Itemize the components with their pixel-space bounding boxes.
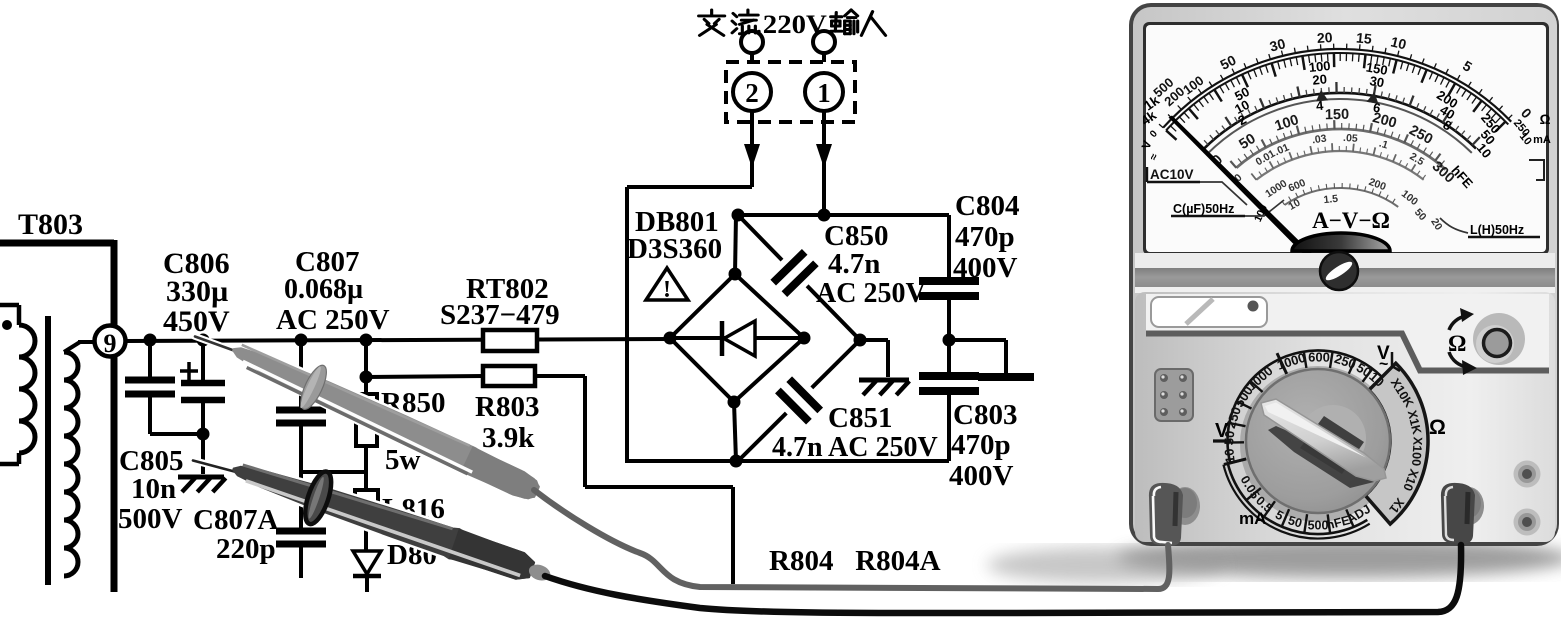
svg-text:1: 1 [817, 78, 831, 108]
svg-text:220V: 220V [763, 9, 827, 39]
svg-text:0.068µ: 0.068µ [284, 274, 363, 305]
svg-text:450V: 450V [163, 305, 230, 338]
svg-text:220p: 220p [216, 533, 276, 565]
svg-text:2: 2 [745, 78, 759, 108]
svg-text:Ω: Ω [1540, 112, 1551, 127]
svg-text:.03: .03 [1311, 132, 1327, 146]
svg-text:10: 10 [1221, 448, 1238, 464]
svg-text:mA: mA [1533, 134, 1551, 146]
svg-text:10n: 10n [131, 473, 176, 505]
svg-text:20: 20 [1316, 29, 1333, 46]
svg-text:C807A: C807A [193, 504, 278, 536]
svg-text:3.9k: 3.9k [482, 422, 535, 454]
svg-text:4.7n: 4.7n [828, 248, 880, 280]
svg-text:C(µF)50Hz: C(µF)50Hz [1173, 202, 1234, 216]
svg-text:470p: 470p [955, 221, 1015, 253]
svg-text:330µ: 330µ [166, 275, 228, 308]
svg-text:AC 250V: AC 250V [276, 304, 390, 336]
svg-text:Ω: Ω [1429, 416, 1446, 439]
svg-text:400V: 400V [949, 460, 1014, 492]
svg-text:C804: C804 [955, 190, 1019, 222]
svg-text:mA: mA [1239, 509, 1266, 528]
svg-text:R803: R803 [475, 391, 539, 423]
svg-text:9: 9 [104, 329, 117, 358]
svg-text:S237−479: S237−479 [440, 299, 560, 331]
svg-text:30: 30 [1368, 73, 1385, 90]
svg-text:470p: 470p [951, 429, 1011, 461]
svg-text:A−V−Ω: A−V−Ω [1312, 208, 1390, 233]
svg-text:AC10V: AC10V [1150, 167, 1194, 182]
svg-text:C803: C803 [953, 399, 1017, 431]
svg-text:1.5: 1.5 [1323, 193, 1339, 206]
svg-text:!: ! [663, 277, 671, 303]
svg-text:600: 600 [1308, 349, 1330, 364]
svg-text:15: 15 [1355, 29, 1372, 46]
svg-text:~: ~ [1379, 356, 1388, 373]
svg-text:400V: 400V [953, 252, 1018, 284]
svg-text:4.7n AC 250V: 4.7n AC 250V [772, 432, 938, 463]
svg-text:C851: C851 [828, 402, 892, 434]
svg-text:20: 20 [1312, 71, 1328, 87]
svg-text:150: 150 [1325, 107, 1349, 123]
svg-text:V: V [1215, 420, 1229, 442]
svg-text:R804 R804A: R804 R804A [769, 545, 941, 577]
svg-text:L(H)50Hz: L(H)50Hz [1470, 223, 1524, 237]
svg-text:X100: X100 [1409, 436, 1425, 466]
svg-text:.05: .05 [1343, 132, 1359, 145]
svg-text:500V: 500V [118, 503, 183, 535]
svg-text:AC 250V: AC 250V [816, 278, 926, 309]
svg-text:T803: T803 [18, 208, 83, 241]
svg-text:D3S360: D3S360 [627, 233, 722, 265]
